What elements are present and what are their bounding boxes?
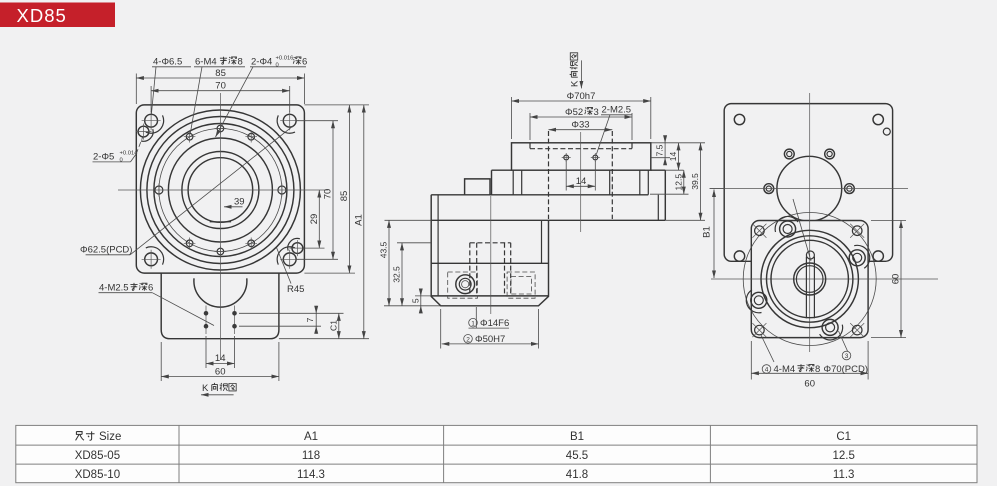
- svg-text:C1: C1: [836, 431, 851, 443]
- svg-text:60: 60: [804, 379, 815, 390]
- middle view: mounting face line: [431, 219, 665, 221]
- right view: keyway keyhole: [806, 251, 814, 318]
- svg-text:4-M2.5: 4-M2.5: [99, 283, 129, 294]
- label 4 4-M4 depth8: [761, 334, 821, 375]
- middle view: inner step verticals: [513, 170, 658, 220]
- svg-text:60: 60: [891, 274, 902, 285]
- svg-text:3: 3: [594, 107, 599, 118]
- title banner XD85: [0, 3, 115, 28]
- label 4-phi6.5: [151, 57, 191, 115]
- svg-text:6: 6: [302, 57, 307, 68]
- label 6-M4 tapped depth8: [190, 57, 245, 134]
- svg-text:8: 8: [815, 364, 820, 375]
- dim 2 phi50H7: [441, 309, 539, 349]
- right view: 4x through bolt holes with boss arcs: [746, 216, 869, 339]
- label R45: [277, 248, 305, 296]
- svg-text:Φ14F6: Φ14F6: [480, 318, 509, 329]
- middle view: housing step line: [431, 194, 648, 196]
- svg-text:Size: Size: [99, 431, 121, 443]
- dim phi52 depth3: [530, 107, 632, 140]
- left view: PCD 62.5 thin circle: [159, 129, 282, 252]
- label phi62.5 PCD with long leader: [80, 126, 293, 256]
- dim 43.5: [379, 220, 441, 305]
- svg-text:R45: R45: [287, 284, 304, 295]
- right view: flange circles: [761, 230, 858, 327]
- svg-text:41.8: 41.8: [566, 469, 588, 481]
- svg-text:3: 3: [845, 353, 849, 360]
- right view: output flange square (front): [751, 221, 868, 338]
- left view: 4x M2.5 screw dots in lower body: [204, 306, 237, 335]
- left view: 2x dowel pin holes on PCD: [155, 184, 286, 197]
- middle view: phi52 recess dashed: [530, 144, 632, 149]
- svg-text:5: 5: [410, 298, 420, 303]
- svg-text:2-Φ4: 2-Φ4: [251, 57, 272, 68]
- svg-text:70: 70: [323, 189, 334, 200]
- left view: 6x M4 screw holes on PCD: [184, 123, 257, 258]
- right view: motor pilot boss circle: [777, 156, 842, 221]
- dim 32.5: [392, 243, 432, 306]
- right view: motor screws: [764, 149, 854, 193]
- dim 14 flange screws: [566, 161, 595, 191]
- K view label bottom: [201, 383, 236, 395]
- label 4-M2.5 tapped depth6: [99, 283, 215, 326]
- dim 5: [410, 289, 431, 314]
- svg-text:39.5: 39.5: [690, 173, 700, 190]
- middle view: side pocket hidden rects: [448, 272, 535, 298]
- middle view: connector bump: [465, 179, 490, 195]
- svg-text:0: 0: [120, 158, 123, 164]
- svg-text:7: 7: [305, 317, 315, 322]
- svg-text:2-M2.5: 2-M2.5: [602, 105, 632, 116]
- right view: plate corner holes: [734, 114, 890, 261]
- svg-text:11.3: 11.3: [833, 469, 855, 481]
- middle view: input bore hidden lines: [470, 243, 511, 296]
- label 1 phi14F6: [469, 307, 510, 329]
- svg-text:114.3: 114.3: [297, 469, 325, 481]
- svg-text:Φ33: Φ33: [571, 120, 589, 131]
- svg-text:Φ62.5(PCD): Φ62.5(PCD): [80, 245, 132, 256]
- dim 7 (M2.5 rows): [239, 306, 344, 334]
- svg-text:K: K: [202, 383, 209, 394]
- svg-text:6: 6: [148, 283, 153, 294]
- svg-text:A1: A1: [353, 214, 364, 226]
- svg-text:118: 118: [302, 450, 320, 462]
- svg-text:70: 70: [215, 81, 226, 92]
- dim 29 right: [303, 190, 325, 248]
- left view: front flange square plate: [136, 105, 304, 273]
- dim 14 right: [665, 143, 683, 170]
- K view arrow top: [570, 53, 582, 89]
- label 2-phi4 +0.016 depth6: [216, 56, 308, 138]
- right view: motor mounting plate: [724, 104, 892, 262]
- svg-text:60: 60: [215, 367, 226, 378]
- svg-text:85: 85: [339, 191, 350, 202]
- middle view: input set screw: [456, 275, 475, 294]
- dim 85 top: [136, 68, 304, 104]
- svg-text:XD85: XD85: [17, 5, 67, 26]
- svg-text:Φ50H7: Φ50H7: [475, 334, 505, 345]
- dim 7.5: [651, 136, 670, 166]
- svg-text:12.5: 12.5: [833, 450, 855, 462]
- svg-text:2-Φ5: 2-Φ5: [93, 152, 114, 163]
- svg-text:A1: A1: [304, 431, 318, 443]
- middle view: 2x M2.5 screws on flange face: [562, 153, 600, 162]
- label 2-phi5 +0.014: [93, 138, 143, 164]
- left view: bottom cable bulge arc: [194, 278, 247, 307]
- dim A1 right: [279, 105, 369, 339]
- dim 14 bottom: [206, 336, 235, 368]
- left view: lower housing body: [161, 273, 279, 339]
- middle view: lower gearbox block: [431, 195, 548, 306]
- svg-text:43.5: 43.5: [379, 241, 389, 258]
- right view: 4x M4 screws (cross symbols): [752, 224, 864, 337]
- svg-text:B1: B1: [702, 226, 713, 238]
- dim B1: [702, 189, 725, 278]
- svg-text:29: 29: [309, 214, 320, 225]
- dim 60 right: [871, 221, 906, 338]
- svg-text:8: 8: [238, 57, 243, 68]
- middle view: upper housing shoulders: [492, 170, 666, 220]
- svg-text:14: 14: [215, 353, 226, 364]
- right view: flange axis centerlines: [711, 93, 938, 352]
- dim phi33: [549, 120, 613, 131]
- middle view: axes centerlines: [491, 132, 581, 314]
- left view: bore keyway chord: [210, 221, 231, 223]
- svg-text:14: 14: [576, 176, 587, 187]
- svg-text:2: 2: [466, 336, 470, 343]
- dim 60 bottom: [751, 341, 868, 390]
- dim 70 top: [151, 81, 290, 112]
- middle view: phi33 bore hidden lines: [549, 131, 613, 219]
- dim 85 right: [304, 105, 355, 273]
- dim 39: [224, 197, 245, 208]
- dim 12.5: [650, 170, 689, 194]
- left view: corner boss arcs: [146, 115, 295, 264]
- svg-text:85: 85: [215, 68, 226, 79]
- dim 60 bottom: [161, 342, 279, 381]
- svg-text:7.5: 7.5: [655, 144, 665, 156]
- label 2-M2.5: [596, 105, 632, 155]
- svg-text:K: K: [570, 80, 581, 87]
- svg-text:XD85-05: XD85-05: [75, 450, 120, 462]
- left view: centerlines: [118, 93, 328, 360]
- svg-text:12.5: 12.5: [673, 174, 683, 191]
- label 3 phi70 PCD: [824, 331, 869, 375]
- svg-text:32.5: 32.5: [392, 266, 402, 283]
- svg-text:6-M4: 6-M4: [195, 57, 217, 68]
- right view: PCD 70 thin circle: [743, 213, 876, 346]
- svg-text:Φ70(PCD): Φ70(PCD): [824, 364, 869, 375]
- svg-text:C1: C1: [328, 320, 338, 331]
- svg-text:45.5: 45.5: [566, 450, 588, 462]
- left view: 2x phi5 dowel holes near corners: [136, 124, 306, 257]
- svg-text:Φ70h7: Φ70h7: [567, 91, 596, 102]
- svg-text:XD85-10: XD85-10: [75, 469, 120, 481]
- svg-text:4-Φ6.5: 4-Φ6.5: [153, 57, 182, 68]
- size table: [16, 425, 977, 482]
- left view: concentric circles of rotary flange: [140, 110, 300, 270]
- dim C1: [328, 313, 338, 338]
- svg-text:4-M4: 4-M4: [774, 364, 796, 375]
- svg-text:B1: B1: [570, 431, 584, 443]
- svg-text:Φ52: Φ52: [565, 107, 583, 118]
- svg-text:1: 1: [471, 320, 475, 327]
- middle view: output flange cylinder (phi70): [512, 143, 651, 170]
- dim 70 right: [297, 121, 339, 260]
- svg-text:0: 0: [276, 63, 279, 69]
- dim phi70h7: [512, 91, 651, 139]
- right view: motor axis centerline: [710, 188, 908, 190]
- left view: 4x corner mounting holes phi6.5: [142, 111, 300, 269]
- right view: keyway leader line: [793, 199, 811, 261]
- dim 39.5: [651, 143, 705, 221]
- table texts: [75, 431, 855, 481]
- svg-text:+0.016: +0.016: [276, 56, 294, 62]
- svg-text:39: 39: [234, 197, 245, 208]
- svg-text:14: 14: [668, 152, 678, 162]
- svg-text:4: 4: [765, 367, 769, 374]
